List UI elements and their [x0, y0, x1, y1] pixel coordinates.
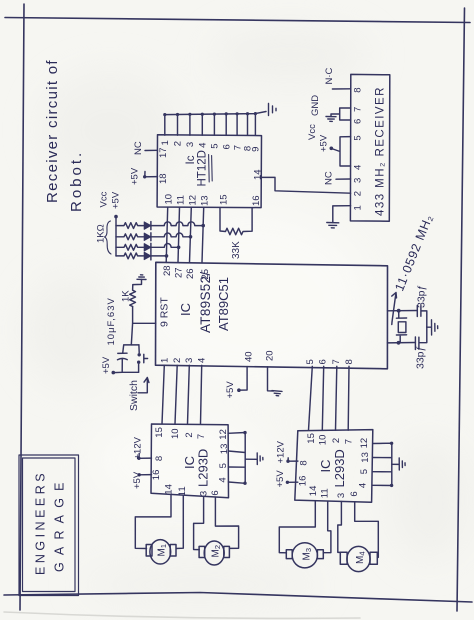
wire RX pin 1 to ground [333, 206, 351, 223]
svg-text:12: 12 [359, 438, 370, 449]
border frame right line [457, 8, 465, 611]
svg-text:AT89C51: AT89C51 [216, 277, 231, 331]
pin number labels RX 1-8 [353, 88, 364, 211]
motor M2 [199, 541, 229, 565]
capacitor C1 33pF top [416, 285, 428, 327]
pin labels MCU top 28 27 26 25 [162, 265, 211, 279]
wire U4 pin 6 to motor M2 right [215, 498, 238, 549]
junction dot +5V reset [112, 371, 116, 375]
svg-text:Receiver circuit of: Receiver circuit of [44, 59, 61, 203]
wires U5 pins 12 13 5 4 to common column [372, 443, 391, 485]
junction dot U5 column bottom [390, 484, 393, 487]
ground symbol at crystal [432, 320, 438, 335]
wire RX pin 3 NC stub [336, 178, 351, 180]
junction dot bus pin 5 [213, 113, 216, 116]
svg-text:Robot.: Robot. [68, 150, 85, 212]
svg-text:M2: M2 [211, 545, 223, 558]
wire U5 pin 6 to motor M4 right [355, 502, 379, 558]
wire U5 pin 3 to motor M4 left [338, 502, 342, 553]
svg-text:M3: M3 [302, 548, 314, 561]
wire diode row 1 to column [151, 222, 203, 226]
junction dot U4 column bottom [243, 482, 246, 485]
svg-text:4: 4 [197, 358, 208, 363]
svg-text:9: 9 [251, 147, 262, 152]
motor M1 [146, 540, 176, 564]
wire U5 column to ground [392, 463, 399, 465]
svg-text:20: 20 [265, 350, 276, 361]
bus wire: HT12D pins 1-9 common to ground [165, 112, 266, 115]
junction dot row 1 [201, 224, 205, 228]
wire HT12D pin 6 to bus [225, 114, 227, 135]
junction dot +12V U4 [137, 457, 140, 460]
wire HT12D pin 5 to bus [213, 114, 215, 135]
pin labels MCU bottom 1 2 3 4 [160, 358, 208, 363]
wire HT12D pin 4 to bus [201, 114, 203, 135]
svg-text:14: 14 [164, 484, 175, 495]
wire HT12D pin 9 to bus [254, 114, 256, 136]
ground symbol above R6 [137, 275, 146, 280]
IC U4 labels [182, 449, 211, 487]
wire +5V rail of LED network [115, 216, 117, 256]
svg-text:+5V: +5V [101, 356, 112, 374]
ground symbol at U5 [399, 458, 405, 470]
resistor R3 1K row 3 [116, 244, 144, 250]
svg-text:HT12D: HT12D [197, 150, 209, 186]
pin labels U5 bottom 14 11 3 6 [308, 486, 360, 499]
svg-text:7: 7 [196, 434, 207, 439]
svg-text:Ic: Ic [185, 155, 197, 164]
node Vcc +5V at RX pins 4,5 [307, 124, 330, 152]
svg-text:M1: M1 [157, 544, 169, 557]
pin labels U4 left 8 16 [151, 456, 165, 480]
wires HT12D pins 10-13 to MCU pins 28-25 [166, 208, 168, 263]
svg-text:12: 12 [187, 195, 198, 206]
junction dot pin 18 [143, 175, 146, 178]
svg-text:4: 4 [198, 143, 209, 148]
svg-text:1: 1 [160, 140, 171, 145]
junction dot bus pin 6 [225, 112, 228, 115]
svg-text:1: 1 [353, 205, 364, 210]
svg-text:GND: GND [310, 95, 321, 116]
wire U4 pin 11 to motor M1 right [176, 496, 183, 549]
node Vcc +5V for LED network [99, 191, 122, 209]
svg-text:33pƒ: 33pƒ [415, 346, 427, 369]
wire HT12D pin 17 NC stub [145, 149, 158, 151]
svg-text:6: 6 [318, 359, 329, 364]
wire U5 pin 14 to motor M3 left [279, 501, 315, 553]
wire U4 pin 14 to motor M1 left [135, 495, 171, 548]
svg-text:4: 4 [217, 477, 228, 482]
wire HT12D pin 8 to bus [247, 114, 249, 136]
svg-text:+5V: +5V [225, 381, 236, 399]
wire RX pin 8 N.C stub [332, 88, 350, 90]
wire MCU RST pin 9 node [133, 307, 156, 324]
svg-text:1: 1 [160, 358, 171, 363]
svg-text:NC: NC [324, 171, 335, 185]
svg-text:9 RST: 9 RST [159, 297, 171, 327]
border frame top line [5, 18, 470, 23]
svg-text:16: 16 [298, 476, 309, 487]
svg-text:17: 17 [158, 147, 169, 158]
value label 11.0592 MHz with arrow [392, 212, 436, 324]
svg-text:ENGINEERS: ENGINEERS [34, 470, 48, 575]
ground symbol at U4 [257, 453, 263, 465]
wire diode row 4 to column [151, 255, 167, 257]
svg-text:8: 8 [154, 456, 165, 461]
ENGINEERS GARAGE title block [19, 455, 79, 596]
svg-text:6: 6 [349, 491, 360, 496]
svg-text:13: 13 [219, 444, 230, 455]
junction dot node B [397, 341, 401, 345]
svg-text:27: 27 [174, 267, 185, 278]
svg-text:+5V: +5V [319, 134, 330, 152]
svg-text:+5V: +5V [132, 471, 143, 489]
svg-text:3: 3 [336, 493, 347, 498]
crystal Y1 [396, 311, 406, 343]
svg-text:5: 5 [353, 135, 364, 140]
resistor R1 1K row 1 [116, 223, 144, 229]
motor M3 [286, 543, 323, 568]
junction dot +5V pin40 [237, 388, 241, 392]
wire HT12D pin 18 to +5V [145, 172, 158, 177]
svg-text:6: 6 [210, 490, 221, 495]
junction dot bus pin 9 [254, 112, 257, 115]
pin labels U4 right 12 13 5 4 [217, 429, 230, 482]
junction dot row 4 [165, 254, 169, 258]
pin labels U4 bottom 14 11 3 6 [164, 484, 222, 496]
wire RST node down to reset loop [131, 323, 132, 345]
wires MCU pins 1-4 down to L293D U4 [162, 365, 164, 423]
junction dot bus pin 7 [236, 112, 239, 115]
svg-text:+5V: +5V [275, 470, 286, 488]
wire U4 pin 16 to +5V [139, 474, 151, 476]
svg-text:N·C: N·C [324, 67, 335, 84]
IC U3 AT89S52/AT89C51 body [156, 262, 388, 369]
ground symbol at RX pins 6,7 [326, 117, 336, 122]
svg-text:433 MH₂ RECEIVER: 433 MH₂ RECEIVER [375, 86, 387, 216]
svg-text:3: 3 [353, 178, 364, 183]
ground symbol at HT12D bus [269, 104, 277, 116]
wire HT12D pin 1 to bus [164, 115, 166, 136]
wires U4 pins 12 13 5 4 to common column [228, 433, 245, 484]
border frame bottom line [4, 593, 472, 603]
svg-text:6: 6 [221, 144, 232, 149]
switch SW1 push button [137, 345, 148, 372]
svg-text:NC: NC [133, 141, 144, 155]
wire MCU pin 40 to +5V [239, 367, 247, 391]
svg-text:+5V: +5V [130, 167, 141, 185]
IC U1 label: Ic HT12D [185, 150, 212, 186]
svg-text:AT89S52/: AT89S52/ [198, 272, 213, 333]
svg-text:IC: IC [318, 460, 333, 473]
svg-text:6: 6 [353, 119, 364, 124]
pin labels U5 top 15 10 2 7 [306, 433, 355, 445]
junction dot rail top [114, 215, 118, 219]
svg-text:4: 4 [358, 483, 369, 488]
capacitor C2 33pF bottom [415, 327, 427, 369]
svg-text:13: 13 [200, 195, 211, 206]
wire MCU XTAL2 to crystal node B [387, 342, 415, 344]
junction dot U4 column top [243, 431, 246, 434]
svg-text:33K: 33K [231, 241, 242, 259]
diode D3 row 3 [144, 243, 151, 251]
svg-text:25: 25 [200, 269, 211, 280]
svg-text:40: 40 [244, 351, 255, 362]
wire diode row 3 to column [151, 243, 179, 247]
svg-text:+12V: +12V [133, 436, 144, 459]
resistor R6 1K vertical [130, 280, 142, 307]
wire HT12D pin 7 to bus [236, 114, 238, 135]
svg-text:15: 15 [219, 194, 230, 205]
svg-text:33pƒ: 33pƒ [416, 285, 428, 308]
svg-text:7: 7 [344, 439, 355, 444]
svg-text:L293D: L293D [196, 449, 211, 487]
wire diode row 2 to column [151, 233, 191, 237]
resistor R4 1K row 4 [116, 253, 144, 259]
svg-text:15: 15 [154, 427, 165, 438]
wire U4 pin 3 to motor M2 left [194, 497, 204, 550]
RF module U2 433 MHz RECEIVER body [350, 74, 389, 221]
IC U3 labels [178, 272, 231, 333]
junction dot +5V U5 [286, 481, 289, 484]
wire MCU XTAL1 to crystal node A [388, 310, 418, 312]
svg-text:26: 26 [185, 268, 196, 279]
svg-text:Vcc: Vcc [307, 124, 318, 140]
svg-text:11: 11 [176, 195, 187, 205]
wire U4 pin 8 to +12V [139, 454, 152, 459]
wire U5 pin 16 to +5V [287, 481, 297, 483]
svg-text:15: 15 [306, 433, 317, 444]
svg-text:2: 2 [172, 358, 183, 363]
svg-text:12: 12 [218, 429, 229, 440]
junction dot bus pin 2 [176, 113, 179, 116]
pin number labels HT12D top 1-9 [160, 140, 262, 152]
svg-text:16: 16 [251, 195, 262, 206]
resistor R5 33K between HT12D pins 15,16 [220, 208, 252, 259]
value label 1K ohm with brace [96, 221, 112, 254]
pin labels U4 top 15 10 2 7 [154, 427, 207, 439]
resistor R2 1K row 2 [116, 234, 144, 240]
svg-text:GARAGE: GARAGE [53, 475, 67, 572]
motor M4 [340, 546, 377, 571]
svg-text:10: 10 [164, 194, 175, 205]
pin labels U5 right 12 13 5 4 [358, 438, 371, 488]
junction dot bus pin 3 [188, 113, 191, 116]
svg-text:Vcc: Vcc [99, 191, 110, 207]
svg-text:Switch: Switch [128, 380, 140, 411]
junction dot bus pin 8 [246, 112, 249, 115]
svg-text:2: 2 [184, 432, 195, 437]
svg-text:IC: IC [178, 303, 193, 316]
svg-text:10μF,63V: 10μF,63V [106, 297, 117, 345]
svg-text:7: 7 [232, 145, 243, 150]
svg-text:3: 3 [199, 491, 210, 496]
capacitor C3 10uF,63V electrolytic [106, 297, 139, 371]
svg-text:11: 11 [320, 488, 331, 498]
junction dot Vcc [330, 147, 334, 151]
IC U5 labels [318, 449, 347, 487]
svg-text:14: 14 [308, 486, 319, 497]
IC U5 L293D motor driver body [295, 430, 373, 503]
wire MCU pin 20 to ground [268, 367, 274, 391]
wire RX pins 4,5 tied to Vcc +5V [332, 137, 351, 166]
svg-text:+12V: +12V [276, 440, 287, 463]
junction dot row 2 [189, 235, 193, 239]
junction dot node A [397, 309, 401, 313]
svg-text:13: 13 [360, 452, 371, 463]
svg-text:5: 5 [359, 469, 370, 474]
pin number labels HT12D bottom 10 11 12 13 15 16 [164, 194, 262, 206]
wire reset loop bottom to +5V [113, 371, 138, 373]
svg-text:+5V: +5V [111, 191, 122, 209]
diode D1 row 1 [144, 222, 151, 230]
diode D2 row 2 [144, 233, 151, 241]
svg-text:M4: M4 [355, 551, 367, 564]
wire U5 pin 11 to motor M3 right [323, 501, 331, 553]
junction dot row 3 [177, 246, 181, 250]
svg-text:2: 2 [173, 141, 184, 146]
ground symbol at MCU pin 20 [272, 391, 282, 396]
junction dot bus pin 1 [163, 113, 166, 116]
svg-text:3: 3 [184, 358, 195, 363]
border frame left line [20, 4, 24, 610]
svg-text:1K: 1K [121, 290, 132, 302]
pin labels U5 left 8 16 [298, 460, 310, 486]
title: Receiver circuit of Robot. [44, 59, 85, 212]
svg-text:3: 3 [185, 142, 196, 147]
svg-text:11: 11 [177, 486, 188, 496]
pin labels MCU bottom 5 6 7 8 [305, 359, 355, 364]
wire U5 pin 8 to +12V [288, 458, 298, 461]
svg-text:14: 14 [253, 169, 264, 180]
IC U4 L293D motor driver body [151, 424, 229, 498]
svg-text:4: 4 [353, 165, 364, 170]
svg-text:2: 2 [331, 438, 342, 443]
svg-text:7: 7 [331, 359, 342, 364]
junction dot +5V U4 [138, 473, 141, 476]
wire crystal caps common to ground [427, 326, 431, 328]
svg-text:10: 10 [318, 435, 329, 446]
svg-text:18: 18 [158, 173, 169, 184]
diode D4 row 4 [144, 252, 151, 260]
page edge shadow bottom [4, 612, 360, 618]
wires MCU pins 5-8 down to L293D U5 [309, 366, 313, 430]
svg-text:5: 5 [218, 463, 229, 468]
svg-text:8: 8 [353, 88, 364, 93]
junction dot bus pin 4 [201, 113, 204, 116]
wire RX pins 6,7 tied to GND [331, 108, 351, 120]
junction dot +12V U5 [286, 460, 289, 463]
svg-text:7: 7 [353, 107, 364, 112]
svg-text:8: 8 [344, 359, 355, 364]
switch label and arrow [128, 378, 149, 412]
svg-text:2: 2 [353, 191, 364, 196]
svg-text:5: 5 [210, 143, 221, 148]
wire U4 column to ground [245, 458, 256, 460]
svg-text:28: 28 [162, 265, 173, 276]
svg-text:L293D: L293D [332, 449, 347, 487]
svg-text:1KΩ: 1KΩ [96, 224, 107, 243]
junction dot U5 column top [390, 442, 393, 445]
svg-text:8: 8 [299, 460, 310, 465]
wire HT12D pin 2 to bus [177, 115, 179, 136]
svg-text:10: 10 [170, 428, 181, 439]
IC U1 HT12D decoder body [157, 135, 261, 208]
svg-text:16: 16 [151, 470, 162, 481]
wire HT12D pin 3 to bus [189, 114, 191, 135]
ground symbol at RX pin 1 [327, 223, 339, 228]
wire HT12D pin 14 to RX pin 2 [261, 177, 350, 193]
svg-text:5: 5 [305, 359, 316, 364]
